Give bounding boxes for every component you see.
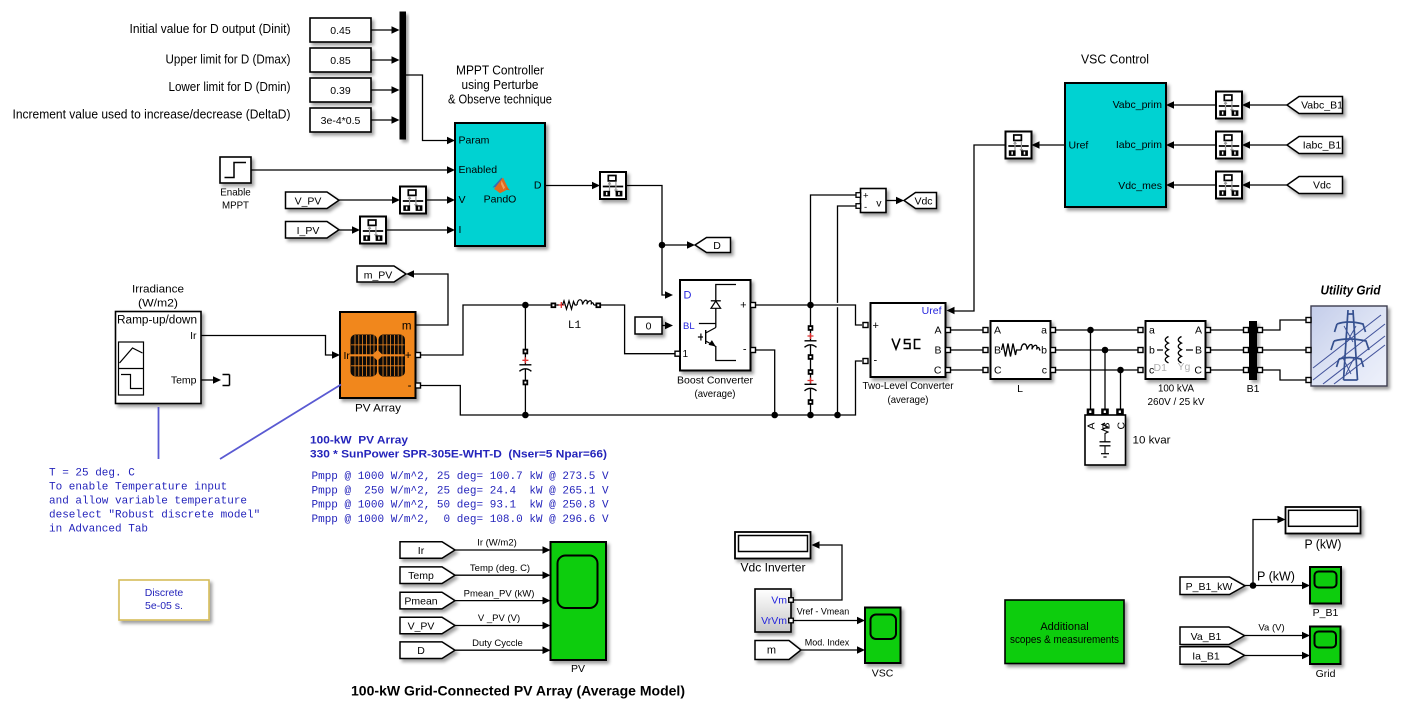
constant Dmax 0.85 xyxy=(310,48,371,72)
from tag Ia_B1 xyxy=(1180,647,1245,664)
rate transition RT5 xyxy=(1216,132,1242,159)
mux Mux1 xyxy=(400,12,407,140)
scope PV xyxy=(551,542,607,660)
source block Ramp-up/down (Irradiance) xyxy=(116,312,202,404)
port square boost - xyxy=(751,348,756,353)
wire V_PV to RT1 xyxy=(339,196,400,204)
constant Dmin 0.39 xyxy=(310,78,371,102)
from tag Vabc_B1 xyxy=(1287,97,1343,114)
wire Vabc_B1 tag to RT4 xyxy=(1242,101,1287,109)
wire Vm to Vdc Inverter display xyxy=(793,541,842,600)
svg-text:Initial value for D output (Di: Initial value for D output (Dinit) xyxy=(130,22,291,36)
subsystem Additional scopes & measurements xyxy=(1005,600,1124,664)
port squares transformer right xyxy=(1206,328,1211,333)
svg-text:deselect "Robust discrete mode: deselect "Robust discrete model" xyxy=(49,510,260,522)
wire step to Enabled xyxy=(251,166,455,174)
wire transformer A to B1 xyxy=(1211,329,1245,331)
wire const2 to mux xyxy=(371,56,400,64)
rate transition RT4 xyxy=(1216,92,1242,119)
wire m to VSC scope xyxy=(801,646,865,654)
wire Iabc_B1 tag to RT5 xyxy=(1242,141,1287,149)
svg-text:0.39: 0.39 xyxy=(330,85,351,97)
annotation: Pmpp table (blue mono) xyxy=(312,471,609,526)
wire TLC B to L B xyxy=(951,349,986,351)
svg-text:3e-4*0.5: 3e-4*0.5 xyxy=(321,115,361,127)
selector block Vm/VrVm xyxy=(755,589,791,632)
wire Vdc tag to RT6 xyxy=(1242,181,1287,189)
svg-text:+: + xyxy=(873,320,879,332)
node junction phase c to filter xyxy=(1117,367,1124,374)
svg-text:Discrete: Discrete xyxy=(145,587,184,599)
wire Ia_B1 to Grid scope xyxy=(1245,652,1311,660)
capacitor Cdc1 xyxy=(805,305,817,384)
svg-text:v: v xyxy=(876,197,882,209)
port square VrVm xyxy=(789,618,794,623)
constant Dinit 0.45 xyxy=(310,18,371,42)
from tag m xyxy=(755,641,801,660)
port squares L right xyxy=(1051,328,1056,333)
svg-text:Vabc_prim: Vabc_prim xyxy=(1113,99,1163,111)
wire V_PV to scope xyxy=(455,622,551,630)
from tag D bottom xyxy=(400,642,455,659)
svg-text:5e-05 s.: 5e-05 s. xyxy=(145,600,183,612)
svg-text:Temp (deg. C): Temp (deg. C) xyxy=(470,563,530,574)
from tag V_PV xyxy=(286,192,340,209)
svg-text:b: b xyxy=(1149,344,1155,356)
subsystem MPPT Controller (PandO) xyxy=(455,123,545,246)
wire mux to Param xyxy=(406,75,455,144)
node junction phase b to filter xyxy=(1102,347,1109,354)
block Utility Grid xyxy=(1311,306,1387,386)
constant DeltaD 3e-4*0.5 xyxy=(310,108,371,132)
wire junction to goto D xyxy=(662,241,695,249)
wire const3 to mux xyxy=(371,86,400,94)
svg-text:C: C xyxy=(934,364,942,376)
svg-text:B: B xyxy=(994,344,1001,356)
rate transition RT1 xyxy=(400,187,426,214)
port squares transformer left xyxy=(1138,328,1143,333)
wire RT4 to Vabc_prim xyxy=(1166,101,1216,109)
svg-text:& Observe technique: & Observe technique xyxy=(448,93,552,107)
port square TLC A xyxy=(946,328,951,333)
svg-text:m: m xyxy=(402,321,412,333)
rate transition RT7 xyxy=(1006,132,1032,159)
svg-text:+: + xyxy=(863,191,869,202)
svg-text:Vm: Vm xyxy=(771,595,787,607)
port square TLC C xyxy=(946,368,951,373)
svg-text:V: V xyxy=(459,194,466,206)
port squares B1 left xyxy=(1244,328,1249,333)
wire RT1 to V xyxy=(426,196,455,204)
node junction phase a to filter xyxy=(1087,327,1094,334)
svg-text:Iabc_B1: Iabc_B1 xyxy=(1303,140,1342,152)
goto tag Vdc xyxy=(904,193,937,209)
from tag Temp xyxy=(400,567,455,584)
svg-text:+: + xyxy=(405,350,412,362)
port square PV + xyxy=(416,353,421,358)
step source Enable MPPT xyxy=(220,157,251,212)
wire D to RT3 xyxy=(545,182,600,190)
wire RT5 to Iabc_prim xyxy=(1166,141,1216,149)
svg-text:(average): (average) xyxy=(888,394,929,406)
wire D to scope xyxy=(455,646,551,654)
svg-text:P (kW): P (kW) xyxy=(1305,538,1342,552)
svg-text:I_PV: I_PV xyxy=(297,225,320,237)
svg-text:Pmean_PV (kW): Pmean_PV (kW) xyxy=(464,588,535,599)
wire B1 to grid phase B xyxy=(1263,349,1307,351)
svg-text:Vdc_mes: Vdc_mes xyxy=(1118,180,1162,192)
svg-text:BL: BL xyxy=(683,321,695,332)
svg-text:Va_B1: Va_B1 xyxy=(1191,631,1222,643)
svg-text:A: A xyxy=(1086,422,1098,429)
from tag V_PV bottom xyxy=(400,617,455,634)
capacitor Cdc2 xyxy=(805,369,817,415)
svg-text:Uref: Uref xyxy=(922,305,942,317)
wire RT6 to Vdc_mes xyxy=(1166,181,1216,189)
svg-text:V _PV (V): V _PV (V) xyxy=(478,613,520,624)
block 10 kvar capacitor bank xyxy=(1085,409,1128,466)
svg-text:-: - xyxy=(864,202,867,213)
node junction bottom rail v- xyxy=(834,412,841,419)
svg-text:A: A xyxy=(934,324,941,336)
port square TLC + xyxy=(863,323,868,328)
node junction top rail at DC cap xyxy=(807,302,814,309)
svg-text:V_PV: V_PV xyxy=(408,620,435,632)
goto tag D xyxy=(695,238,731,253)
wire B1 to grid phase A xyxy=(1263,320,1307,330)
svg-text:100-kW Grid-Connected PV Array: 100-kW Grid-Connected PV Array (Average … xyxy=(351,682,685,698)
powergui block Discrete 5e-05 s. xyxy=(119,580,209,620)
svg-text:Uref: Uref xyxy=(1069,139,1089,151)
svg-text:Ir: Ir xyxy=(190,330,197,342)
wire v to Vdc goto xyxy=(886,197,904,205)
svg-text:Vref - Vmean: Vref - Vmean xyxy=(797,607,850,618)
svg-text:0.45: 0.45 xyxy=(330,25,351,37)
svg-text:D: D xyxy=(713,240,721,252)
wire Temp to terminator xyxy=(201,376,221,384)
svg-text:PandO: PandO xyxy=(484,194,517,206)
svg-text:D: D xyxy=(534,180,542,192)
svg-text:V_PV: V_PV xyxy=(295,195,322,207)
display Vdc Inverter xyxy=(735,532,811,559)
rate transition RT6 xyxy=(1216,172,1242,199)
annotation line from note to PV Array xyxy=(220,385,341,460)
svg-text:c: c xyxy=(1042,364,1047,376)
subsystem VSC Control xyxy=(1065,83,1166,207)
node junction D xyxy=(659,242,666,249)
wire L b to transformer b xyxy=(1056,349,1141,351)
node junction bottom rail boost xyxy=(771,412,778,419)
node junction P_B1_kW xyxy=(1250,582,1257,589)
scope VSC xyxy=(865,608,901,664)
from tag Ir xyxy=(400,542,455,559)
wire v- sense down to bottom rail (with crossing gap) xyxy=(838,206,858,415)
wire phase a down to 10 kvar xyxy=(1090,330,1092,410)
wire RT7 to TLC Uref xyxy=(947,145,1006,314)
wire VSC Uref to RT7 xyxy=(1032,141,1066,149)
svg-text:100 kVA: 100 kVA xyxy=(1158,383,1194,395)
svg-text:L: L xyxy=(1017,383,1023,395)
port squares Utility Grid xyxy=(1306,318,1311,323)
wire Ir to scope xyxy=(455,546,551,554)
wire v+ sense down to top rail xyxy=(811,195,858,305)
converter block Boost Converter (average) xyxy=(680,280,751,371)
svg-text:To enable Temperature input: To enable Temperature input xyxy=(49,482,227,494)
svg-text:a: a xyxy=(1149,324,1155,336)
svg-text:MPPT: MPPT xyxy=(222,200,250,212)
wire transformer B to B1 xyxy=(1211,349,1245,351)
svg-text:+: + xyxy=(740,300,746,312)
svg-text:Duty Cyccle: Duty Cyccle xyxy=(472,638,523,649)
port squares B1 right xyxy=(1258,328,1263,333)
svg-text:Vabc_B1: Vabc_B1 xyxy=(1301,100,1343,112)
svg-text:Two-Level Converter: Two-Level Converter xyxy=(863,380,954,392)
wire const1 to mux xyxy=(371,26,400,34)
svg-text:P (kW): P (kW) xyxy=(1257,569,1295,583)
svg-text:A: A xyxy=(1195,324,1202,336)
wire TLC A to L A xyxy=(951,329,986,331)
port square TLC - xyxy=(863,359,868,364)
svg-text:Grid: Grid xyxy=(1316,668,1336,680)
annotation line from Irradiance to note xyxy=(158,407,160,459)
annotation: temperature note (blue) xyxy=(49,468,260,536)
wire boost + to Two-Level + (top rail right) xyxy=(756,305,863,325)
svg-text:Pmpp @ 1000 W/m^2, 0 deg= 108: Pmpp @ 1000 W/m^2, 0 deg= 108.0 kW @ 296… xyxy=(312,514,609,526)
svg-text:Ia_B1: Ia_B1 xyxy=(1192,651,1220,663)
svg-text:Ramp-up/down: Ramp-up/down xyxy=(117,315,197,327)
svg-text:0: 0 xyxy=(646,320,652,332)
svg-text:Boost Converter: Boost Converter xyxy=(677,375,753,387)
from tag Pmean xyxy=(400,592,455,609)
svg-text:B: B xyxy=(934,344,941,356)
svg-text:Param: Param xyxy=(459,135,490,147)
svg-text:Enable: Enable xyxy=(220,187,251,199)
rate transition RT2 xyxy=(360,217,386,244)
svg-text:Lower limit for D (Dmin): Lower limit for D (Dmin) xyxy=(169,80,291,94)
svg-text:a: a xyxy=(1041,324,1047,336)
svg-text:-: - xyxy=(874,354,878,366)
wire Pmean to scope xyxy=(455,597,551,605)
wire VrVm to VSC scope xyxy=(793,617,865,625)
svg-text:m_PV: m_PV xyxy=(364,269,393,281)
svg-text:D: D xyxy=(417,645,425,657)
svg-text:0.85: 0.85 xyxy=(330,55,351,67)
svg-text:Increment value used to increa: Increment value used to increase/decreas… xyxy=(13,108,291,122)
terminator for Temp xyxy=(223,375,230,386)
svg-text:D: D xyxy=(684,290,692,302)
svg-text:Enabled: Enabled xyxy=(459,164,498,176)
svg-text:using Perturbe: using Perturbe xyxy=(462,78,539,92)
wire m to m_PV tag xyxy=(406,270,448,325)
svg-text:C: C xyxy=(1116,422,1128,430)
svg-text:Yg: Yg xyxy=(1178,361,1191,373)
svg-text:B: B xyxy=(1195,344,1202,356)
wire I_PV to RT2 xyxy=(339,226,360,234)
svg-text:Ir: Ir xyxy=(418,545,425,557)
block L (three-phase RL) xyxy=(991,321,1051,379)
svg-text:Pmean: Pmean xyxy=(404,595,437,607)
wire PV + to L1 (top DC rail) xyxy=(421,305,551,355)
svg-text:10 kvar: 10 kvar xyxy=(1133,435,1171,447)
svg-text:(W/m2): (W/m2) xyxy=(138,297,178,309)
rate transition RT3 xyxy=(600,172,626,199)
svg-text:L1: L1 xyxy=(568,320,582,332)
from tag Vdc xyxy=(1287,177,1343,194)
from tag P_B1_kW xyxy=(1180,577,1245,595)
wire RT2 to I xyxy=(386,226,455,234)
svg-text:PV Array: PV Array xyxy=(355,403,402,415)
goto tag m_PV xyxy=(357,266,406,282)
svg-text:in Advanced Tab: in Advanced Tab xyxy=(49,524,148,536)
svg-text:Vdc: Vdc xyxy=(1313,180,1331,192)
converter block Two-Level Converter (average) xyxy=(871,303,946,377)
port square boost 1 xyxy=(675,351,680,356)
wire RT3 down to boost D input xyxy=(626,186,673,299)
svg-text:-: - xyxy=(408,380,412,392)
svg-text:Vdc Inverter: Vdc Inverter xyxy=(741,561,806,575)
svg-text:Additional: Additional xyxy=(1040,621,1088,633)
node junction bottom rail at input cap xyxy=(522,412,529,419)
svg-text:260V / 25 kV: 260V / 25 kV xyxy=(1148,396,1205,408)
wire Va_B1 to Grid scope xyxy=(1245,632,1311,640)
svg-text:Pmpp @ 1000 W/m^2, 50 deg= 93.: Pmpp @ 1000 W/m^2, 50 deg= 93.1 kW @ 250… xyxy=(312,500,609,512)
svg-text:A: A xyxy=(994,324,1001,336)
wire B1 to grid phase C xyxy=(1263,370,1307,380)
svg-text:Ir: Ir xyxy=(344,350,351,362)
display P (kW) xyxy=(1286,507,1361,534)
wire const4 to mux xyxy=(371,116,400,124)
svg-text:Va (V): Va (V) xyxy=(1258,622,1284,633)
from tag Iabc_B1 xyxy=(1287,137,1343,154)
svg-text:and allow variable temperature: and allow variable temperature xyxy=(49,496,247,508)
port square v- xyxy=(856,204,861,209)
capacitor Cin xyxy=(519,305,531,415)
svg-text:VSC Control: VSC Control xyxy=(1081,53,1149,67)
svg-text:1: 1 xyxy=(683,349,689,360)
svg-text:(average): (average) xyxy=(695,388,736,400)
svg-text:b: b xyxy=(1041,344,1047,356)
scope P_B1 xyxy=(1310,567,1341,604)
port square v+ xyxy=(856,193,861,198)
from tag Va_B1 xyxy=(1180,627,1245,645)
svg-text:D1: D1 xyxy=(1154,362,1168,374)
svg-text:VrVm: VrVm xyxy=(761,615,787,627)
wire transformer C to B1 xyxy=(1211,369,1245,371)
svg-text:T = 25 deg. C: T = 25 deg. C xyxy=(49,468,135,480)
port square Vm xyxy=(789,598,794,603)
wire L a to transformer a xyxy=(1056,329,1141,331)
scope Grid xyxy=(1310,627,1341,665)
svg-text:C: C xyxy=(1194,364,1202,376)
node junction top rail at input cap xyxy=(522,302,529,309)
wire junction to P display xyxy=(1253,516,1286,586)
wire Ir to PV array xyxy=(201,336,340,359)
svg-text:scopes & measurements: scopes & measurements xyxy=(1010,634,1119,646)
voltage measurement block Vdc xyxy=(861,189,887,214)
port square boost + xyxy=(751,303,756,308)
svg-text:Vdc: Vdc xyxy=(914,196,932,208)
svg-text:Utility Grid: Utility Grid xyxy=(1321,284,1381,298)
port square TLC B xyxy=(946,348,951,353)
node junction bottom rail at DC cap xyxy=(807,412,814,419)
block PV Array xyxy=(340,312,416,398)
svg-text:330 * SunPower SPR-305E-WHT-D: 330 * SunPower SPR-305E-WHT-D (Nser=5 Np… xyxy=(310,449,607,461)
svg-text:VSC: VSC xyxy=(872,668,894,680)
wire Temp to scope xyxy=(455,571,551,579)
port square PV - xyxy=(416,383,421,388)
wire L1 to boost input 1 xyxy=(601,305,675,354)
svg-text:Ir (W/m2): Ir (W/m2) xyxy=(477,538,517,549)
wire phase b down to 10 kvar xyxy=(1104,350,1106,410)
from tag I_PV xyxy=(286,222,340,239)
svg-text:PV: PV xyxy=(571,663,585,675)
wire PV - to bottom DC rail xyxy=(421,361,863,415)
svg-text:Mod. Index: Mod. Index xyxy=(805,638,850,649)
inductor L1 xyxy=(551,300,602,310)
svg-text:100-kW PV Array: 100-kW PV Array xyxy=(310,434,409,446)
svg-text:Temp: Temp xyxy=(171,375,197,387)
constant 0 xyxy=(635,317,662,334)
svg-text:C: C xyxy=(994,364,1002,376)
svg-text:-: - xyxy=(743,344,747,356)
wire L c to transformer c xyxy=(1056,369,1141,371)
wire boost - down to bottom rail xyxy=(756,350,775,415)
transformer 100 kVA xyxy=(1146,321,1206,379)
bus B1 xyxy=(1249,321,1257,380)
svg-text:Pmpp @ 1000 W/m^2, 25 deg= 100: Pmpp @ 1000 W/m^2, 25 deg= 100.7 kW @ 27… xyxy=(312,471,609,483)
svg-text:B1: B1 xyxy=(1247,383,1260,395)
svg-text:Temp: Temp xyxy=(408,570,434,582)
svg-text:Upper limit for D (Dmax): Upper limit for D (Dmax) xyxy=(166,52,291,66)
svg-text:Pmpp @ 250 W/m^2, 25 deg= 24.: Pmpp @ 250 W/m^2, 25 deg= 24.4 kW @ 265.… xyxy=(312,485,609,497)
svg-text:P_B1_kW: P_B1_kW xyxy=(1186,581,1233,593)
wire TLC C to L C xyxy=(951,369,986,371)
wire P_B1_kW to P_B1 scope xyxy=(1245,582,1310,590)
svg-text:I: I xyxy=(459,224,462,236)
svg-text:m: m xyxy=(767,645,776,657)
wire 0 to BL xyxy=(662,322,673,330)
port squares L left xyxy=(983,328,988,333)
svg-text:P_B1: P_B1 xyxy=(1313,607,1339,619)
svg-text:Iabc_prim: Iabc_prim xyxy=(1116,139,1162,151)
svg-text:MPPT Controller: MPPT Controller xyxy=(456,64,544,78)
svg-text:Irradiance: Irradiance xyxy=(132,283,184,295)
wire phase c down to 10 kvar xyxy=(1120,370,1122,410)
